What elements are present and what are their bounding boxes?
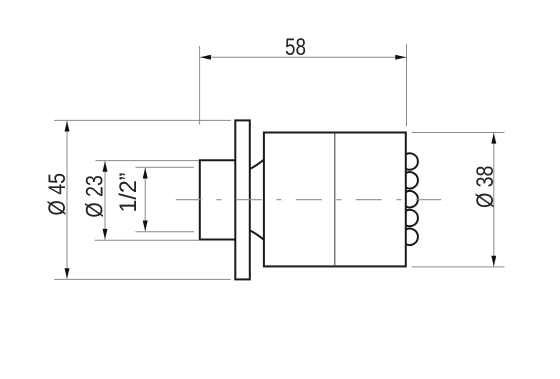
dim 58: left arrow [200,55,211,60]
bell transition bottom arc [250,230,264,239]
nozzle bump 3 [406,191,418,207]
dim 1/2": top extension line [136,166,195,168]
svg-text:Ø 23: Ø 23 [81,175,108,218]
body mid parting line [334,133,336,267]
svg-text:58: 58 [285,34,306,61]
nozzle bump 2 [406,172,418,188]
dim 1/2": dimension line [144,168,146,231]
dim Ø38: top extension line [412,132,505,134]
nozzle bump 4 [406,210,418,226]
dim Ø38: dimension line [493,133,495,266]
dim Ø23: bottom arrow [103,229,108,240]
bell transition top arc [250,160,264,169]
main body cylinder Ø38 [264,133,406,267]
svg-text:1/2”: 1/2” [115,172,142,212]
dim Ø45: dimension line [66,121,68,279]
dim Ø23: top extension line [96,160,200,162]
dim Ø45: bottom arrow [65,268,70,279]
dim Ø38: bottom extension line [412,266,505,268]
dim 1/2": bottom extension line [136,231,195,233]
dim Ø38: top arrow [491,133,496,144]
nozzle bump 5 [406,229,418,245]
dim Ø45: top arrow [65,121,70,132]
dim Ø45: bottom extension line [54,278,231,280]
centerline (horizontal axis, dash-dot) [176,199,442,201]
nozzle bump 1 [406,153,418,169]
dim 1/2": bottom arrow [143,221,148,232]
dim Ø38: bottom arrow [491,256,496,267]
dim 58: dimension line [200,56,406,58]
svg-text:Ø 45: Ø 45 [44,173,71,216]
dim 58: right arrow [395,55,406,60]
wall flange plate Ø45 [235,120,250,279]
svg-text:Ø 38: Ø 38 [472,166,499,209]
dim Ø45: top extension line [54,119,231,121]
threaded nipple 1/2 inch (left connector rect) [200,160,236,239]
dim 58: left extension line [199,46,201,125]
dim Ø23: bottom extension line [95,239,200,241]
dim 58: right extension line [406,44,408,127]
dim Ø23: dimension line [104,161,106,240]
dim 1/2": top arrow [143,168,148,179]
dim Ø23: top arrow [103,161,108,172]
